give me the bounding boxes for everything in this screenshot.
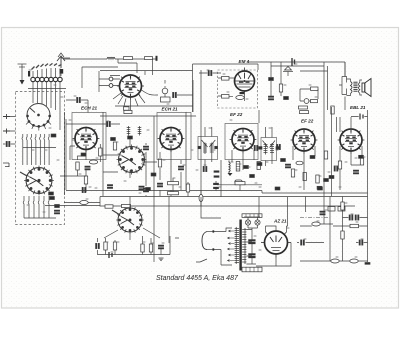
svg-text:EF 22: EF 22 <box>301 119 314 124</box>
wire <box>339 160 341 190</box>
blob SW1 side <box>51 134 56 137</box>
pickup P <box>3 163 9 167</box>
bus HT <box>100 196 368 198</box>
grid cap G2 <box>109 84 113 88</box>
coil bank verticals <box>33 95 60 130</box>
oval Ra4 <box>296 161 303 165</box>
IFT2 box <box>261 138 277 161</box>
cap C13b <box>77 97 81 102</box>
oval R7 on AVC line <box>80 201 88 205</box>
switch SW4 <box>116 206 144 234</box>
caps C16u <box>214 171 219 178</box>
blob Bb1 <box>359 155 364 158</box>
resistor R16b <box>257 162 260 170</box>
band labels (tilted) <box>32 63 62 69</box>
wire top bus <box>63 58 157 60</box>
capacitor C6 <box>208 70 212 75</box>
resistor R9b <box>99 148 102 156</box>
IFT1 rim blobs <box>198 146 218 148</box>
cap C18 <box>143 146 148 150</box>
IFT2 windings <box>263 141 276 155</box>
wire drop to tube <box>118 59 153 75</box>
wire HT out <box>201 197 259 218</box>
tap arrows <box>228 230 235 262</box>
wire AZ21 <box>256 197 291 266</box>
resistor Ra1 <box>299 106 308 109</box>
trimmer C9 <box>283 67 293 72</box>
terminal J1 <box>3 114 10 119</box>
mains switch <box>196 259 207 262</box>
cap C17 <box>139 186 144 190</box>
resistor Rg2 <box>168 192 179 195</box>
component cluster right of EM4 <box>269 78 274 81</box>
trimmer bank T1..T7 <box>31 68 62 95</box>
ground G2 <box>365 263 370 265</box>
shield box ECH21b <box>157 113 191 160</box>
resistor R29 <box>350 224 359 227</box>
filter F2 <box>124 57 133 60</box>
terminal box T106 <box>124 107 130 110</box>
resistor Rg6 <box>122 204 131 207</box>
resistor R28 <box>341 231 344 239</box>
coil L1 on antenna lead <box>60 69 64 74</box>
dashed box EM4 <box>218 70 258 108</box>
wire sw4 <box>100 197 160 241</box>
ground GB <box>158 258 163 260</box>
wire sw2 links <box>103 138 157 178</box>
cap C21 <box>178 166 183 170</box>
fuse lamp LP2 <box>255 220 260 225</box>
resistor Ra5 <box>303 173 306 181</box>
blob B-ift2 <box>257 163 262 166</box>
blob under tube B1 <box>81 153 86 156</box>
bottom wire <box>98 236 180 255</box>
wire <box>297 224 333 243</box>
switch SW1 wafer <box>26 104 51 131</box>
TR1 primary winding <box>235 227 239 264</box>
terminal strip top <box>242 214 262 218</box>
wire spk <box>339 62 362 110</box>
IFT1 box <box>198 137 218 160</box>
rails <box>300 197 368 262</box>
IFT1 windings <box>202 140 216 154</box>
osc coil L2b <box>138 126 142 136</box>
oval R16 <box>235 180 242 184</box>
wire aerial to bus <box>61 58 70 76</box>
pot P1 <box>304 99 309 104</box>
wire IFT1 <box>205 127 212 166</box>
wire top feed <box>344 62 346 76</box>
cap C26 eb <box>360 114 363 120</box>
blob small <box>284 97 289 100</box>
resistor Ra2 <box>300 111 309 114</box>
pin fan V1 <box>113 93 145 106</box>
wire stage links <box>60 144 100 192</box>
tube EM4 <box>235 68 255 95</box>
blob under coils <box>128 136 133 139</box>
cap C25 <box>285 164 290 168</box>
wire <box>356 242 368 244</box>
wire ech21b below <box>146 143 171 196</box>
electrolytic C32 <box>249 254 256 258</box>
switch SW3 <box>24 166 54 196</box>
shield box ECH21a <box>72 113 106 160</box>
wire inputs <box>10 117 16 145</box>
coil verticals lower <box>23 140 49 165</box>
cap C36 <box>301 240 305 245</box>
fuse lamp LP1 <box>245 220 250 225</box>
cap Ca1 <box>277 144 281 149</box>
cap C33 <box>349 215 353 220</box>
tube ECH21b <box>158 128 185 153</box>
resistor Rg1 <box>168 182 179 185</box>
blob Ba1 <box>310 156 315 159</box>
osc coil L2a <box>127 126 131 136</box>
cap C35 <box>320 211 325 215</box>
wire mid bus <box>100 112 196 262</box>
wire grid <box>65 112 121 195</box>
coupling caps column <box>334 166 338 171</box>
filter F3 <box>145 56 158 61</box>
cap C8 top right <box>292 58 295 66</box>
wire y184.8 <box>217 184 262 186</box>
blob B3 <box>250 175 255 178</box>
antenna A1 <box>57 53 65 68</box>
resistor R4 <box>222 95 230 99</box>
wire verticals <box>98 197 170 245</box>
cap C16 <box>107 185 112 189</box>
oval R31 <box>331 259 339 263</box>
wire mains <box>215 228 233 265</box>
wiper arrow SW4 <box>112 210 120 215</box>
tube EF22b <box>291 129 318 154</box>
resistor R24 <box>113 242 116 250</box>
winding stubs right <box>246 230 256 265</box>
wire vg <box>173 178 306 212</box>
tap bottom wires <box>24 207 56 218</box>
resistor R34 <box>311 100 318 103</box>
cap C34 <box>355 215 359 220</box>
tube V1 mixer-osc <box>117 75 144 100</box>
resistor Rg5 <box>235 182 245 185</box>
cap C27 <box>353 170 358 174</box>
resistor R22 <box>105 205 113 208</box>
svg-text:EF 22: EF 22 <box>230 112 243 117</box>
bottom tap hooks <box>23 196 49 207</box>
cap C7 <box>268 96 273 100</box>
svg-text:Standard 4455 A, Eka 487: Standard 4455 A, Eka 487 <box>156 275 239 282</box>
resistor R18 <box>316 175 319 183</box>
cap C24 <box>254 145 258 150</box>
switch SW2 <box>117 145 147 175</box>
wire grid caps <box>99 71 120 92</box>
wire <box>247 62 345 96</box>
blob B5 <box>324 179 329 182</box>
TR1 secondary winding <box>242 228 246 264</box>
wire right rail <box>281 62 288 96</box>
rail x259 <box>201 70 259 197</box>
cap C19 <box>157 183 162 187</box>
transformer core laminations <box>353 82 357 91</box>
bus heater <box>45 205 355 208</box>
resistor R6 <box>279 84 282 92</box>
cap C12 <box>6 141 10 146</box>
resistor R9 <box>76 162 79 170</box>
svg-text:EM 4: EM 4 <box>239 59 250 64</box>
cap C22 <box>244 166 249 169</box>
resistor R25 <box>141 244 144 252</box>
transformer TR1 core <box>239 220 241 271</box>
wiper arrow SW3 <box>20 172 27 176</box>
blob B6 <box>329 176 334 179</box>
cap C14 <box>85 166 90 170</box>
wire caps <box>248 228 258 264</box>
wire EF22b <box>293 146 315 190</box>
wire bank bus <box>28 88 66 90</box>
wire EBL21 <box>340 146 362 165</box>
contact hooks row <box>22 134 49 140</box>
cap C20 <box>143 188 148 192</box>
wire EM4 links <box>218 78 245 101</box>
wedge W1 <box>228 173 233 176</box>
blob Bg3 <box>49 192 54 195</box>
wire to right rail <box>145 71 193 112</box>
bracket hooks <box>342 77 347 95</box>
resistor R19 <box>324 151 327 159</box>
wire <box>180 160 182 190</box>
wire <box>333 218 368 227</box>
transformer TR-OUT secondary <box>359 83 360 94</box>
pilot lamp P1 <box>162 88 168 94</box>
box chassis line <box>193 64 259 112</box>
oval R5 <box>236 96 244 100</box>
blob right of SW2 <box>151 173 156 176</box>
wire C13b <box>66 100 88 113</box>
oval Rg4 <box>199 194 203 201</box>
value annotations (scan texture) <box>27 64 366 257</box>
tube EF22a <box>230 129 257 154</box>
cap C28 <box>96 243 100 248</box>
electrolytic C31 <box>249 240 256 244</box>
cathode R20 <box>360 157 363 165</box>
resistor Ra3 <box>331 106 334 114</box>
resistor R17 <box>291 169 294 177</box>
dashdot line <box>300 217 330 219</box>
resistor R11 <box>124 110 132 113</box>
resistor R23 <box>104 242 107 250</box>
wire lamps <box>244 217 260 228</box>
collector bus in box <box>23 146 56 148</box>
cap C23 <box>203 166 207 171</box>
blob contacts <box>50 197 55 200</box>
blob B2 <box>111 138 116 141</box>
speaker SP1 <box>362 79 371 97</box>
capacitor C5 <box>173 92 177 97</box>
wire pot <box>300 89 318 101</box>
coil L-ant <box>107 57 115 59</box>
resistor R27 <box>341 202 344 210</box>
wire rails to output <box>271 62 328 110</box>
svg-text:ECH 21: ECH 21 <box>81 106 98 111</box>
resistor R13 <box>158 159 161 167</box>
cap C29 <box>158 245 163 249</box>
grid R21 <box>338 161 341 169</box>
terminal J3 <box>3 143 15 145</box>
blob Bg4 <box>146 188 151 191</box>
resistor R12 <box>113 142 116 150</box>
mains plug <box>202 230 215 250</box>
svg-text:AZ 21: AZ 21 <box>273 219 287 224</box>
cap C11 <box>54 210 59 214</box>
cap C37 <box>359 240 363 245</box>
trimmer C1 <box>18 64 27 85</box>
tube ECH21a <box>73 128 100 153</box>
wire EF22a <box>232 150 254 170</box>
IFT2 rim blobs <box>259 147 280 150</box>
dark contact K1 <box>28 71 30 77</box>
wire box corner <box>82 67 118 88</box>
electrolytic C30 <box>109 252 112 258</box>
shield box EF22a <box>225 124 258 160</box>
tube AZ21 <box>261 231 291 258</box>
wire second bus <box>100 71 193 76</box>
grid cap G1 <box>109 77 113 81</box>
cap C15 <box>82 187 86 192</box>
transformer TR-OUT primary <box>351 82 353 94</box>
resistor R33 <box>311 87 319 90</box>
cap C13 <box>107 121 111 126</box>
wire oval <box>64 202 100 204</box>
resistor R10 <box>84 176 87 184</box>
terminal strip bottom <box>242 267 262 272</box>
tube EBL21 <box>338 129 365 154</box>
oval R30 <box>312 222 320 226</box>
dashed box coilpack <box>16 92 65 225</box>
oval R32 <box>350 259 358 263</box>
resistor R26 <box>149 244 152 252</box>
resistor R3 <box>222 77 230 81</box>
boxes Bg5 <box>328 207 345 212</box>
resistor R15 <box>236 162 240 172</box>
blob Bg2 <box>318 187 323 190</box>
resistor Rg3 <box>186 184 189 192</box>
blob Ba2 <box>317 186 322 189</box>
blob Bg1 <box>275 187 280 190</box>
wire top eb <box>351 116 368 118</box>
wire under tube <box>115 100 193 113</box>
coil L3 <box>229 161 230 174</box>
wire plate right <box>142 90 159 95</box>
caps Cg1 <box>214 183 219 189</box>
blob B4 <box>281 159 286 162</box>
wire IFT2 <box>266 127 273 166</box>
terminal J2 <box>3 129 10 134</box>
svg-text:ECH 21: ECH 21 <box>162 107 179 112</box>
svg-text:EBL 21: EBL 21 <box>350 105 366 110</box>
bus AVC <box>66 191 368 194</box>
rails <box>324 107 368 262</box>
dial box D1 <box>161 97 171 102</box>
oval R8 <box>89 160 97 164</box>
wire C6 <box>199 72 221 74</box>
